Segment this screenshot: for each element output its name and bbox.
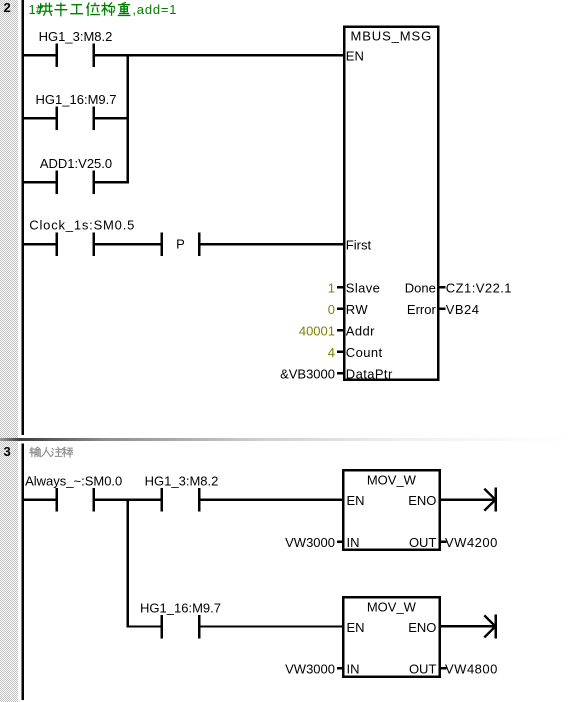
svg-text:ENO: ENO <box>408 620 436 635</box>
svg-text:&VB3000: &VB3000 <box>280 366 335 381</box>
pin Count with value 4 <box>337 351 344 353</box>
rung terminator arrow <box>484 615 495 637</box>
pin IN <- VW3000 <box>337 667 343 669</box>
wire: contact HG1_16 to branch <box>94 117 129 119</box>
svg-text:IN: IN <box>347 662 360 677</box>
svg-text:Always_~:SM0.0: Always_~:SM0.0 <box>25 474 122 489</box>
contact HG1_3:M8.2 (net 3) <box>161 488 163 512</box>
svg-text:MOV_W: MOV_W <box>367 473 417 488</box>
branch vertical joining parallel contacts <box>126 54 128 184</box>
wire: Always_~ to contact HG1_3 (net 3) <box>94 499 162 501</box>
svg-text:0: 0 <box>328 302 335 317</box>
svg-text:MOV_W: MOV_W <box>367 599 417 614</box>
svg-text:VB24: VB24 <box>446 302 480 317</box>
contact HG1_16:M9.7 <box>55 106 57 130</box>
svg-text:EN: EN <box>347 493 365 508</box>
svg-text:ADD1:V25.0: ADD1:V25.0 <box>40 156 112 171</box>
wire: Clock_1s to P contact <box>94 243 162 245</box>
rung terminator arrow <box>484 489 495 511</box>
wire: ENO to output arrow <box>440 499 495 501</box>
contact Clock_1s:SM0.5 <box>55 232 57 256</box>
svg-text:Done: Done <box>405 280 436 295</box>
wire: HG1_3 to MOV_W 1 EN <box>199 499 343 501</box>
network 3 left power rail <box>22 443 24 700</box>
network 2 left power rail <box>22 0 24 435</box>
wire: branch to contact HG1_16 (net 3) <box>127 625 162 627</box>
svg-text:HG1_3:M8.2: HG1_3:M8.2 <box>39 29 113 44</box>
svg-text:1: 1 <box>328 280 335 295</box>
svg-text:40001: 40001 <box>299 323 335 338</box>
wire: P contact to MBUS_MSG First <box>199 243 344 245</box>
svg-text:2: 2 <box>4 0 11 15</box>
contact HG1_16:M9.7 (net 3) <box>161 615 163 639</box>
function block MOV_W 1 <box>343 470 439 550</box>
svg-text:RW: RW <box>346 302 369 317</box>
pin IN <- VW3000 <box>337 540 343 542</box>
pin RW with value 0 <box>337 308 344 310</box>
function block MOV_W 2 <box>343 597 439 677</box>
svg-text:EN: EN <box>346 48 364 63</box>
svg-text:1#: 1# <box>29 2 44 17</box>
svg-text:Addr: Addr <box>346 323 375 338</box>
contact ADD1:V25.0 <box>55 171 57 195</box>
svg-text:HG1_3:M8.2: HG1_3:M8.2 <box>145 474 219 489</box>
pin Addr with value 40001 <box>337 329 344 331</box>
wire: rail to contact Clock_1s <box>22 243 57 245</box>
svg-text:ENO: ENO <box>408 493 436 508</box>
network separator bar <box>0 438 574 441</box>
svg-text:IN: IN <box>347 535 360 550</box>
svg-text:Clock_1s:SM0.5: Clock_1s:SM0.5 <box>29 218 135 233</box>
wire: rail to contact Always_~ <box>22 499 57 501</box>
svg-text:P: P <box>176 237 185 252</box>
svg-text:,add=1: ,add=1 <box>132 2 177 17</box>
svg-text:3: 3 <box>4 444 11 459</box>
svg-text:MBUS_MSG: MBUS_MSG <box>350 29 432 44</box>
editor margin column <box>0 0 18 702</box>
contact HG1_3:M8.2 <box>55 43 57 66</box>
svg-text:Error: Error <box>407 302 437 317</box>
svg-text:HG1_16:M9.7: HG1_16:M9.7 <box>36 92 117 107</box>
svg-text:OUT: OUT <box>409 535 437 550</box>
wire: ENO to output arrow <box>440 625 495 627</box>
svg-text:VW3000: VW3000 <box>285 535 335 550</box>
svg-text:EN: EN <box>347 620 365 635</box>
network 3 comment (grey) : [shu ru zhu shi] <box>30 447 40 457</box>
wire: contact ADD1 to branch <box>94 181 129 183</box>
svg-text:VW4800: VW4800 <box>445 662 498 677</box>
wire: rail to contact HG1_3 <box>22 54 57 56</box>
svg-text:Slave: Slave <box>346 280 381 295</box>
svg-text:CZ1:V22.1: CZ1:V22.1 <box>446 280 512 295</box>
contact Always_~:SM0.0 <box>55 488 57 512</box>
svg-text:Count: Count <box>346 345 383 360</box>
branch vertical to rung 2 <box>126 499 128 628</box>
svg-text:HG1_16:M9.7: HG1_16:M9.7 <box>140 601 221 616</box>
pin DataPtr with value &VB3000 <box>337 372 344 374</box>
wire: contact HG1_3 to MBUS_MSG EN <box>94 54 345 56</box>
function block U1 MBUS_MSG <box>344 27 438 380</box>
wire: rail to contact HG1_16 <box>22 117 57 119</box>
svg-text:VW4200: VW4200 <box>445 535 498 550</box>
svg-text:DataPtr: DataPtr <box>346 366 393 381</box>
wire: rail to contact ADD1 <box>22 181 57 183</box>
svg-text:First: First <box>346 237 372 252</box>
positive edge contact P <box>161 232 163 256</box>
pin Slave with value 1 <box>337 286 344 288</box>
svg-text:OUT: OUT <box>409 662 437 677</box>
wire: HG1_16 to MOV_W 2 EN <box>199 625 343 627</box>
svg-text:4: 4 <box>328 345 335 360</box>
svg-text:VW3000: VW3000 <box>285 662 335 677</box>
